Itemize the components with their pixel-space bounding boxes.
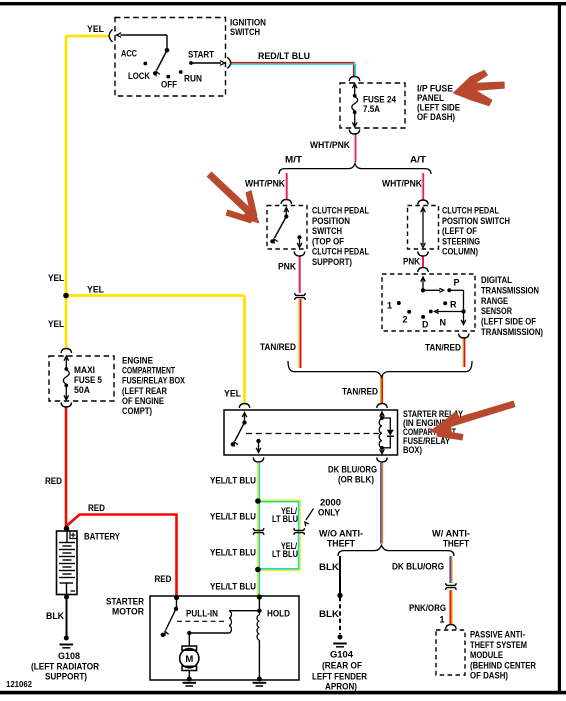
svg-text:YEL: YEL xyxy=(224,389,241,399)
svg-text:1: 1 xyxy=(387,301,392,311)
svg-text:TAN/RED: TAN/RED xyxy=(425,343,461,353)
svg-text:IGNITION: IGNITION xyxy=(230,18,266,28)
svg-text:CLUTCH PEDAL: CLUTCH PEDAL xyxy=(312,247,369,257)
svg-text:N: N xyxy=(440,318,447,328)
red arrow to I/P fuse panel xyxy=(453,70,505,107)
maxi fuse 5 element xyxy=(64,367,68,371)
relay switch pivot dot xyxy=(242,420,246,424)
svg-text:TRANSMISSION): TRANSMISSION) xyxy=(481,327,543,337)
contact dot OFF xyxy=(166,75,170,79)
svg-text:THEFT: THEFT xyxy=(443,539,469,549)
svg-text:WHT/PNK: WHT/PNK xyxy=(382,179,422,189)
svg-text:WHT/PNK: WHT/PNK xyxy=(310,140,350,150)
inline connector DK BLU/ORG to PNK/ORG xyxy=(446,583,456,585)
svg-text:RED: RED xyxy=(155,574,172,584)
starter switch lever end dot xyxy=(161,633,165,637)
splice brace M/T A/T xyxy=(279,163,431,174)
svg-text:2000: 2000 xyxy=(320,498,341,508)
connector at starter relay coil input xyxy=(377,404,388,409)
svg-text:OF DASH): OF DASH) xyxy=(470,671,508,681)
svg-text:PNK: PNK xyxy=(403,257,420,267)
svg-text:PULL-IN: PULL-IN xyxy=(186,609,218,619)
svg-text:YEL/LT BLU: YEL/LT BLU xyxy=(210,512,256,522)
connector at ignition switch START output xyxy=(227,57,230,68)
motor feed wire xyxy=(188,633,190,647)
svg-text:RED: RED xyxy=(45,476,62,486)
contact dot LOCK xyxy=(153,71,157,75)
page right border xyxy=(558,2,561,694)
wire PNK/ORG to passive anti-theft module xyxy=(449,590,451,624)
range sensor P to output bus xyxy=(449,289,463,291)
clutch switch lever xyxy=(275,217,287,239)
annotation arrow 2000 only xyxy=(306,509,314,521)
svg-text:RANGE: RANGE xyxy=(481,296,508,306)
pin arrow maxi fuse input xyxy=(65,357,67,368)
node relay coil bottom xyxy=(380,446,384,450)
svg-text:G104: G104 xyxy=(330,650,353,660)
node relay coil top xyxy=(380,416,384,420)
svg-text:LT BLU: LT BLU xyxy=(272,549,298,559)
svg-text:SENSOR: SENSOR xyxy=(481,306,512,316)
starter motor M1 armature circle xyxy=(180,649,199,668)
splice brace anti-theft xyxy=(338,545,454,556)
svg-text:OF DASH): OF DASH) xyxy=(417,112,455,122)
ignition START output wire xyxy=(191,62,221,64)
battery B1 box xyxy=(57,531,78,595)
fuse 24 element xyxy=(353,94,357,98)
svg-text:FUSE 24: FUSE 24 xyxy=(363,95,396,105)
pin arrow A/T top xyxy=(421,208,426,213)
wire RED battery junction to starter motor xyxy=(66,515,177,597)
contact dot N side xyxy=(429,310,433,314)
contact dot RUN xyxy=(179,70,183,74)
pin arrow fuse 24 input xyxy=(354,85,356,96)
pin arrow START output xyxy=(220,61,225,66)
inline connector 2000-only branch xyxy=(294,528,304,530)
svg-text:P: P xyxy=(454,278,460,288)
svg-text:YEL/LT BLU: YEL/LT BLU xyxy=(210,582,256,592)
node battery negative junction xyxy=(64,595,69,600)
inline connector PNK to TAN/RED xyxy=(295,293,305,295)
clutch switch output contact dot xyxy=(297,235,301,239)
svg-text:RUN: RUN xyxy=(184,74,202,84)
svg-text:START: START xyxy=(188,50,214,60)
node YEL junction xyxy=(63,293,69,299)
contact dot P xyxy=(447,288,451,292)
connector at relay switch output xyxy=(253,458,264,463)
wire WHT/PNK A/T branch xyxy=(421,173,423,201)
page top border xyxy=(0,2,566,5)
svg-text:RED/LT BLU: RED/LT BLU xyxy=(258,51,310,61)
wire YEL down to starter relay xyxy=(243,296,246,405)
connector at relay coil output xyxy=(377,458,388,463)
connector at range sensor input xyxy=(418,268,429,273)
node YEL/LT BLU input at starter motor xyxy=(257,594,262,599)
svg-text:ACC: ACC xyxy=(121,49,137,59)
wire YEL ignition feed horizontal xyxy=(66,35,109,38)
svg-text:POSITION SWITCH: POSITION SWITCH xyxy=(442,216,510,226)
svg-text:FUSE 5: FUSE 5 xyxy=(74,375,102,385)
connector at range sensor output xyxy=(459,334,470,339)
svg-text:SUPPORT): SUPPORT) xyxy=(312,257,352,267)
ignition switch common arm wire xyxy=(121,34,168,36)
starter relay box xyxy=(224,410,398,455)
svg-text:FUSE/RELAY BOX: FUSE/RELAY BOX xyxy=(122,376,185,386)
svg-text:LOCK: LOCK xyxy=(128,71,150,81)
svg-text:1: 1 xyxy=(440,615,445,625)
svg-text:W/O ANTI-: W/O ANTI- xyxy=(319,529,363,539)
wire DK BLU/ORG starter relay to anti-theft splice xyxy=(380,463,382,544)
clutch pedal position switch A/T box xyxy=(408,206,439,250)
svg-text:(LEFT REAR: (LEFT REAR xyxy=(122,386,167,396)
pin arrow relay switch input xyxy=(244,414,246,421)
node YEL/LT BLU loop top junction xyxy=(255,498,261,504)
svg-text:BLK: BLK xyxy=(46,611,64,621)
connector at passive anti-theft module xyxy=(446,625,457,630)
contact dot D xyxy=(421,315,425,319)
wire YEL/LT BLU 2000-only parallel loop xyxy=(259,500,300,570)
passive anti-theft system module box xyxy=(436,630,465,675)
svg-text:D: D xyxy=(422,320,429,330)
pin arrow maxi fuse output xyxy=(65,385,67,399)
svg-text:YEL/LT BLU: YEL/LT BLU xyxy=(210,548,256,558)
svg-text:G108: G108 xyxy=(58,651,80,661)
svg-text:PNK: PNK xyxy=(278,262,296,272)
connector at maxi fuse output xyxy=(61,403,72,408)
svg-text:THEFT SYSTEM: THEFT SYSTEM xyxy=(470,640,527,650)
svg-text:PASSIVE ANTI-: PASSIVE ANTI- xyxy=(470,630,525,640)
svg-text:(LEFT RADIATOR: (LEFT RADIATOR xyxy=(31,662,99,672)
svg-text:YEL: YEL xyxy=(87,285,104,295)
svg-text:THEFT: THEFT xyxy=(327,539,355,549)
ignition switch pivot dot xyxy=(165,48,170,53)
svg-text:PANEL: PANEL xyxy=(417,93,444,103)
svg-text:M: M xyxy=(185,654,193,665)
svg-text:DK BLU/ORG: DK BLU/ORG xyxy=(392,562,444,572)
node YEL/LT BLU loop bottom junction xyxy=(255,567,261,573)
pin arrow clutch switch output xyxy=(299,237,301,245)
battery negative terminal xyxy=(60,582,74,584)
starter motor box xyxy=(150,596,299,680)
splice brace TAN/RED merge xyxy=(288,361,472,377)
svg-text:LEFT FENDER: LEFT FENDER xyxy=(312,672,367,682)
relay clamp diode branch xyxy=(382,418,390,430)
svg-text:POSITION: POSITION xyxy=(312,216,350,226)
contact dot ACC xyxy=(143,62,147,66)
starter hold feed wire xyxy=(258,597,260,615)
svg-text:DK BLU/ORG: DK BLU/ORG xyxy=(328,465,377,475)
digital transmission range sensor box xyxy=(382,274,475,331)
svg-text:SWITCH: SWITCH xyxy=(230,27,260,37)
contact dot 1 xyxy=(397,301,401,305)
wire WHT/PNK M/T branch xyxy=(284,173,286,200)
clutch switch A/T closed contact line xyxy=(422,209,424,245)
ground G104 xyxy=(338,635,343,640)
svg-text:COMPARTMENT: COMPARTMENT xyxy=(122,366,175,376)
svg-text:BLK: BLK xyxy=(319,562,340,572)
svg-text:STEERING: STEERING xyxy=(442,236,480,246)
pin arrow clutch switch input xyxy=(285,209,287,215)
svg-text:PNK/ORG: PNK/ORG xyxy=(409,603,446,613)
connector at clutch switch M/T output xyxy=(294,252,305,257)
svg-text:(REAR OF: (REAR OF xyxy=(322,661,362,671)
battery plates xyxy=(59,542,75,544)
svg-text:(LEFT SIDE OF: (LEFT SIDE OF xyxy=(481,317,536,327)
pull-in winding bottom wire xyxy=(189,632,229,634)
connector at clutch switch M/T input xyxy=(281,200,292,205)
node RED junction at battery xyxy=(64,526,70,532)
svg-text:121062: 121062 xyxy=(6,679,32,689)
pin arrow fuse 24 output xyxy=(354,112,356,126)
wire BLK w/o anti-theft branch dashed to G104 xyxy=(339,597,341,634)
svg-text:A/T: A/T xyxy=(410,155,427,165)
svg-text:CLUTCH PEDAL: CLUTCH PEDAL xyxy=(312,206,369,216)
connector at starter relay YEL input xyxy=(239,404,250,409)
svg-text:(BEHIND CENTER: (BEHIND CENTER xyxy=(470,660,536,670)
wire YEL left vertical run xyxy=(65,36,68,348)
wire RED maxi fuse to battery junction xyxy=(65,407,68,529)
svg-text:APRON): APRON) xyxy=(325,682,357,692)
engine compartment fuse/relay box (maxi fuse 5) xyxy=(49,356,114,401)
svg-text:MODULE: MODULE xyxy=(470,650,503,660)
svg-text:I/P FUSE: I/P FUSE xyxy=(417,84,453,94)
svg-text:BATTERY: BATTERY xyxy=(84,532,120,542)
svg-text:WHT/PNK: WHT/PNK xyxy=(245,179,285,189)
svg-text:MAXI: MAXI xyxy=(74,365,95,375)
svg-text:SWITCH: SWITCH xyxy=(312,226,342,236)
pin arrow relay switch output xyxy=(258,441,260,451)
pull-in winding top wire xyxy=(229,610,259,612)
svg-text:7.5A: 7.5A xyxy=(363,104,380,114)
starter switch pivot dot xyxy=(174,607,178,611)
ignition switch box xyxy=(115,18,226,97)
svg-text:OF ENGINE: OF ENGINE xyxy=(122,396,164,406)
node pull-in/hold junction xyxy=(257,609,261,613)
svg-text:HOLD: HOLD xyxy=(267,609,290,619)
wire RED battery positive stub xyxy=(65,529,68,532)
ground at starter motor xyxy=(187,677,192,682)
svg-text:YEL: YEL xyxy=(48,273,64,283)
svg-text:(OR BLK): (OR BLK) xyxy=(338,475,374,485)
svg-text:RED: RED xyxy=(88,503,105,513)
svg-text:M/T: M/T xyxy=(285,155,303,165)
wire BLK w/o anti-theft branch solid xyxy=(339,556,341,596)
svg-text:SUPPORT): SUPPORT) xyxy=(45,672,87,682)
node RED input at starter motor xyxy=(174,595,179,600)
connector at ignition switch YEL input xyxy=(109,30,112,43)
svg-text:TAN/RED: TAN/RED xyxy=(342,387,378,397)
starter switch lever xyxy=(166,609,177,631)
node range sensor input junction xyxy=(421,288,425,292)
inline connector main YEL/LT BLU xyxy=(253,528,263,530)
svg-text:BOX): BOX) xyxy=(403,445,422,455)
ignition switch lever xyxy=(157,50,168,70)
svg-text:(LEFT OF: (LEFT OF xyxy=(442,226,477,236)
fuse 24 box I/P fuse panel xyxy=(340,83,405,128)
wire PNK below clutch pedal position switch A/T xyxy=(422,256,424,268)
svg-text:W/ ANTI-: W/ ANTI- xyxy=(432,529,470,539)
hold winding ground wire xyxy=(258,640,260,679)
motor ground wire xyxy=(188,671,190,680)
contact dot R xyxy=(443,301,447,305)
svg-text:(LEFT SIDE: (LEFT SIDE xyxy=(417,103,460,113)
wire PNK below clutch pedal position switch M/T xyxy=(299,256,301,293)
starter motor M1 brush bars xyxy=(182,646,197,650)
ground at hold winding xyxy=(257,677,262,682)
battery positive terminal xyxy=(66,531,68,542)
starter solenoid switch stub xyxy=(176,598,178,608)
svg-text:2: 2 xyxy=(403,315,408,325)
svg-text:CLUTCH PEDAL: CLUTCH PEDAL xyxy=(442,206,499,216)
connector at maxi fuse input xyxy=(61,349,72,354)
pin arrow relay coil output xyxy=(381,448,383,452)
svg-text:TAN/RED: TAN/RED xyxy=(260,342,296,352)
svg-text:TRANSMISSION: TRANSMISSION xyxy=(481,285,539,295)
pin arrow range sensor output xyxy=(463,312,465,324)
starter mechanical link dashed xyxy=(177,620,226,622)
wire DK BLU/ORG w/ anti-theft branch xyxy=(449,556,451,583)
clutch switch pivot dot xyxy=(284,214,288,218)
connector at fuse 24 output xyxy=(349,130,360,135)
svg-text:ENGINE: ENGINE xyxy=(122,356,153,366)
page bottom border xyxy=(0,691,566,695)
pin arrow range sensor input xyxy=(422,278,424,290)
pin arrow relay coil input xyxy=(381,414,383,418)
node BLK junction xyxy=(337,593,342,598)
contact dot 2 xyxy=(407,310,411,314)
wire WHT/PNK fuse 24 to splice xyxy=(353,134,355,163)
svg-text:DIGITAL: DIGITAL xyxy=(481,275,512,285)
pin arrow A/T bottom xyxy=(421,243,426,248)
relay coil winding xyxy=(379,419,382,448)
svg-text:R: R xyxy=(450,300,457,310)
ground G108 xyxy=(64,636,69,641)
wire YEL junction to relay horizontal xyxy=(66,294,245,297)
svg-text:YEL: YEL xyxy=(87,24,104,34)
svg-text:COMPT): COMPT) xyxy=(122,406,152,416)
pull-in winding coil xyxy=(229,611,231,633)
range sensor moving contact to P xyxy=(423,289,440,291)
svg-text:BLK: BLK xyxy=(319,609,340,619)
pin arrow ignition common xyxy=(117,33,122,38)
connector at clutch switch A/T input xyxy=(418,200,429,205)
svg-text:50A: 50A xyxy=(74,385,90,395)
clutch pedal position switch M/T box xyxy=(267,206,307,250)
svg-text:(TOP OF: (TOP OF xyxy=(312,236,344,246)
contact dot START xyxy=(189,61,193,65)
svg-text:LT BLU: LT BLU xyxy=(272,514,298,524)
wire YEL/LT BLU relay to starter motor hold winding xyxy=(257,463,259,597)
node range sensor bus junction xyxy=(461,309,465,313)
range sensor N contact line xyxy=(437,311,464,313)
red arrow to starter relay xyxy=(429,401,516,441)
red arrow to clutch pedal position switch xyxy=(207,172,260,224)
svg-text:MOTOR: MOTOR xyxy=(112,607,144,617)
relay switch output contact dot xyxy=(256,439,260,443)
wire TAN/RED from range sensor to splice xyxy=(462,337,464,367)
relay switch lever end dot xyxy=(231,442,235,446)
wire TAN/RED left branch to splice xyxy=(298,299,300,368)
relay mechanical link dashed xyxy=(246,433,379,435)
svg-text:YEL: YEL xyxy=(48,319,64,329)
node motor feed junction xyxy=(187,631,191,635)
connector at fuse 24 input xyxy=(349,77,360,82)
relay switch lever xyxy=(235,423,245,442)
svg-text:STARTER: STARTER xyxy=(106,597,144,607)
clutch switch lever end dot xyxy=(270,239,274,243)
wire RED/LT BLU ignition to fuse 24 xyxy=(231,63,354,77)
wire TAN/RED splice to starter relay coil xyxy=(380,375,382,404)
hold winding coil xyxy=(257,615,259,640)
svg-text:COLUMN): COLUMN) xyxy=(442,247,478,257)
svg-text:OFF: OFF xyxy=(161,80,177,90)
svg-text:YEL/LT BLU: YEL/LT BLU xyxy=(210,476,256,486)
svg-text:ONLY: ONLY xyxy=(318,508,340,518)
wire BLK battery negative to G108 xyxy=(66,595,68,637)
connector at clutch switch A/T output xyxy=(418,252,429,257)
